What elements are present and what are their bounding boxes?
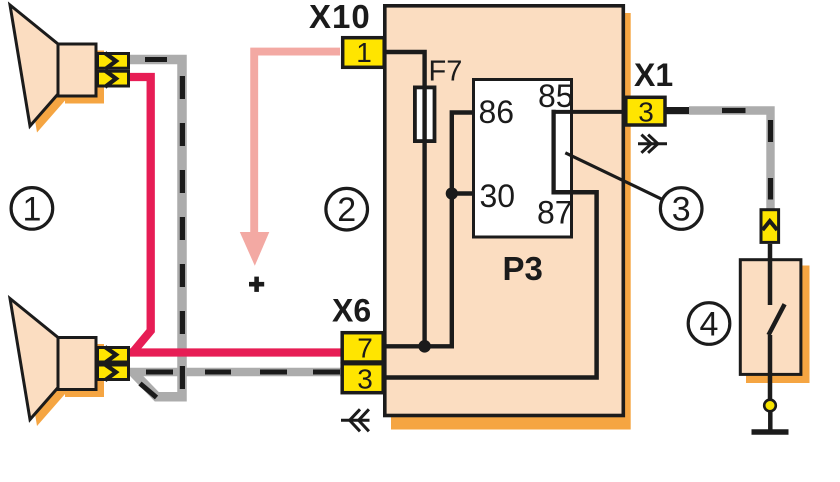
wire black: branch to relay 30: [452, 191, 474, 195]
wire black: connector to switch: [768, 244, 773, 305]
switch top lead inside box: [768, 258, 773, 305]
wire through fuse: [422, 87, 426, 141]
svg-text:1: 1: [356, 37, 372, 68]
svg-text:87: 87: [537, 195, 573, 231]
wire pink: supply from battery +: [254, 52, 340, 233]
wire black stub from X1-3: [666, 107, 689, 114]
black dashes on gray wire to X6-3: [146, 370, 340, 375]
horn 1 connector chevron A: [105, 53, 116, 69]
connector X10 pin 1: [343, 38, 385, 68]
svg-text:4: 4: [700, 306, 719, 344]
black dash on gray horizontal to switch: [722, 108, 746, 113]
svg-text:1: 1: [22, 190, 41, 228]
connector X6 pin 3: [342, 364, 383, 393]
wire black: screw to ground bar: [768, 411, 773, 430]
callout circle 3: [660, 188, 702, 230]
callout circle 1: [11, 188, 53, 230]
ground screw: [764, 400, 776, 412]
plus label: [249, 277, 264, 292]
junction dot at 30 branch: [446, 187, 458, 199]
svg-text:3: 3: [672, 191, 691, 229]
switch blade: [769, 304, 785, 335]
svg-text:X6: X6: [332, 293, 371, 329]
black dash on gray wire horn1 horizontal: [145, 57, 167, 62]
shadow of main block 2: [391, 13, 631, 430]
wire gray: horn2 to X6-3: [130, 368, 344, 377]
ground symbol: [752, 429, 789, 435]
svg-text:85: 85: [538, 78, 574, 114]
horn 2 cone: [10, 299, 58, 420]
junction dot at X6-7: [418, 340, 431, 353]
horn 1 body: [58, 44, 96, 96]
horn 2 body: [58, 338, 96, 390]
relay P3 box: [474, 80, 572, 238]
svg-text:3: 3: [357, 364, 373, 395]
svg-text:F7: F7: [429, 56, 463, 88]
main block 2 (mounting block): [385, 6, 624, 416]
wire black: switch to ground: [768, 335, 773, 400]
horn 2 connector chevron B: [105, 365, 116, 381]
horn 1 connector chevron B: [105, 71, 116, 87]
relay contact bar: [551, 110, 555, 195]
svg-text:2: 2: [337, 191, 356, 229]
shadow of horn 2: [17, 305, 104, 426]
X6 plug arrow symbol: [341, 409, 370, 431]
svg-text:P3: P3: [503, 250, 543, 287]
callout circle 4: [688, 303, 730, 345]
horn 2 connector pin A: [98, 348, 129, 363]
connector X6 pin 7: [342, 333, 383, 362]
connector X1 pin 3: [626, 97, 665, 125]
wire black: X6-7 to relay coil 86: [386, 113, 474, 347]
horn 1 connector pin A: [98, 54, 129, 69]
black dashes on gray vertical to switch: [768, 120, 773, 200]
horn switch box 4: [740, 260, 801, 375]
black dashes on gray vertical wire: [180, 76, 185, 389]
wire gray: horn1 black-coded wire to X6-3 loop: [130, 60, 182, 397]
callout circle 2: [326, 188, 368, 230]
switch connector (item 4 plug): [761, 210, 779, 243]
wire gray: X1-3 to horn switch: [689, 111, 771, 209]
horn 2 connector pin B: [98, 365, 129, 380]
switch connector chevron: [763, 221, 778, 230]
wire crimson: horn1 feed: [130, 77, 151, 353]
svg-text:7: 7: [357, 333, 373, 364]
horn 1 connector pin B: [98, 71, 129, 86]
svg-text:30: 30: [480, 178, 516, 214]
wire black: relay 87 to X6-3: [386, 192, 597, 377]
svg-text:3: 3: [638, 97, 654, 128]
X1 plug arrow symbol: [638, 135, 667, 153]
wire black: X10-1 through fuse down to junction: [385, 52, 425, 347]
black dash on diagonal gray segment: [140, 384, 157, 398]
svg-text:X1: X1: [634, 57, 673, 93]
horn 1 cone: [10, 5, 58, 126]
pink arrowhead: [240, 232, 269, 266]
svg-text:X10: X10: [309, 0, 371, 35]
horn 2 connector chevron A: [105, 347, 116, 363]
wire black: relay 85 to X1-3: [552, 110, 628, 114]
fuse F7: [415, 87, 435, 141]
svg-text:86: 86: [479, 94, 515, 130]
shadow of horn 1: [17, 12, 104, 133]
wire crimson: horn2 feed to X6-7: [130, 348, 344, 356]
pointer line to label 3: [565, 153, 661, 199]
shadow of switch box 4: [746, 266, 810, 384]
